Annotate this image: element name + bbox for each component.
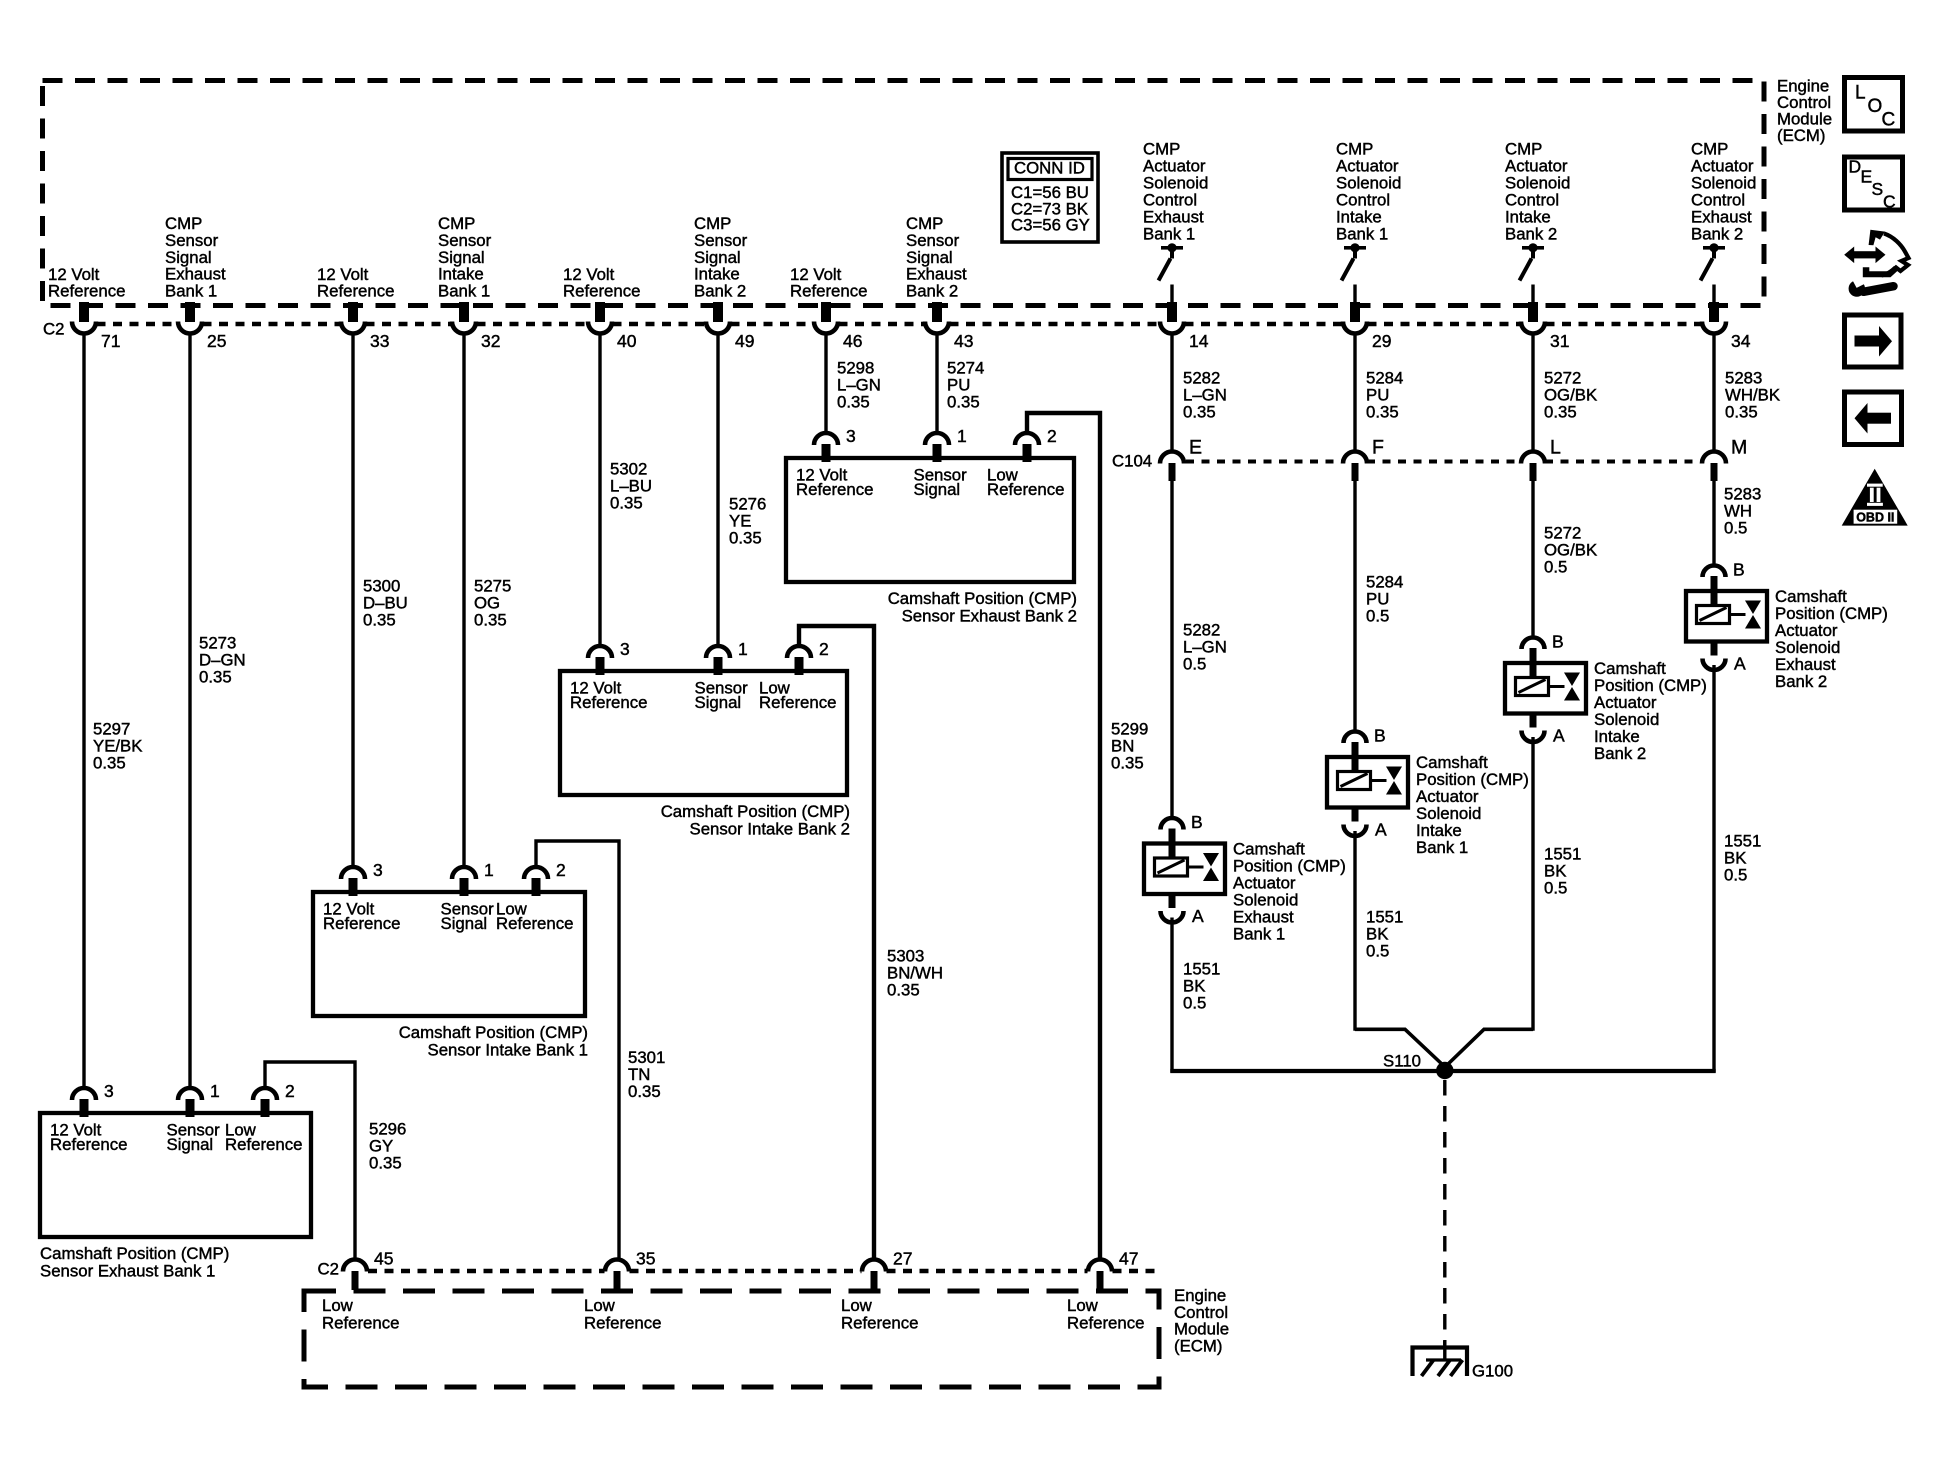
C104 pin F terminal [1343, 437, 1384, 482]
svg-text:Signal: Signal [441, 914, 488, 933]
sensor Exhaust Bank 1 pin 1 terminal [178, 1081, 220, 1117]
label: CMP Sensor Signal Exhaust Bank 1 (pin 25) [165, 214, 226, 300]
label: 12 Volt Reference (pin 46) [790, 265, 867, 301]
label: 12 Volt Reference (pin 71) [48, 265, 125, 301]
svg-text:1: 1 [484, 860, 494, 880]
wire label 1551 BK 0.5 (EB2) [1724, 832, 1761, 885]
svg-text:0.35: 0.35 [887, 981, 920, 1000]
svg-text:Camshaft Position (CMP): Camshaft Position (CMP) [661, 802, 850, 821]
connector C104 dashed line [1186, 460, 1702, 464]
svg-text:C: C [1883, 192, 1896, 212]
svg-text:0.5: 0.5 [1724, 519, 1747, 538]
svg-text:OBD II: OBD II [1856, 511, 1894, 525]
svg-text:3: 3 [104, 1081, 114, 1101]
sensor Exhaust Bank 1 internal labels [50, 1120, 302, 1154]
svg-text:43: 43 [954, 331, 973, 351]
wire 5282 L-GN ECM to C104 [1170, 332, 1173, 452]
svg-text:Low: Low [584, 1296, 616, 1315]
CMP actuator solenoid Exhaust Bank 1 pin B terminal [1161, 812, 1203, 845]
svg-text:Camshaft Position (CMP): Camshaft Position (CMP) [888, 589, 1077, 608]
svg-text:40: 40 [617, 331, 637, 351]
svg-text:E: E [1861, 167, 1873, 187]
CMP sensor Exhaust Bank 2 box [786, 458, 1074, 582]
svg-text:Bank 1: Bank 1 [438, 281, 490, 300]
sensor Intake Bank 1 pin 1 terminal [452, 860, 494, 896]
svg-text:Reference: Reference [584, 1314, 661, 1333]
wire 1551 BK solenoid A down [1712, 665, 1715, 1073]
ECM pin 45 terminal (low reference) [343, 1249, 393, 1291]
svg-text:2: 2 [285, 1081, 295, 1101]
wire label 5282 L-GN 0.35 [1183, 369, 1227, 422]
svg-text:M: M [1731, 437, 1747, 459]
wire 1551 BK solenoid A down [1531, 737, 1534, 1031]
svg-text:32: 32 [481, 331, 500, 351]
CMP actuator solenoid Intake Bank 2 pin B terminal [1522, 632, 1564, 665]
svg-text:Signal: Signal [914, 480, 961, 499]
wire 5297 wire YE/BK [82, 332, 85, 1089]
svg-text:S: S [1872, 179, 1884, 199]
sensor Intake Bank 2 pin 2 terminal [787, 639, 829, 675]
svg-text:Reference: Reference [225, 1135, 302, 1154]
svg-text:0.35: 0.35 [1725, 403, 1758, 422]
svg-text:Sensor Exhaust Bank 1: Sensor Exhaust Bank 1 [40, 1261, 215, 1280]
splice bus horizontal wire [1170, 1069, 1715, 1073]
svg-text:Reference: Reference [796, 480, 873, 499]
wire 1551 BK solenoid A down [1353, 831, 1356, 1031]
wire label 5298 L-GN 0.35 [837, 359, 881, 412]
wire 5274 wire PU [935, 332, 938, 434]
ECM internal driver switch for pin 29 [1342, 243, 1367, 308]
CMP actuator solenoid Exhaust Bank 1 body [1144, 844, 1225, 895]
label: CMP Actuator Solenoid Control Exhaust Bank 1 (pin 14) [1143, 140, 1208, 244]
svg-text:Bank 1: Bank 1 [1233, 925, 1285, 944]
CMP actuator solenoid Intake Bank 1 body [1327, 757, 1408, 808]
svg-text:0.5: 0.5 [1544, 879, 1567, 898]
svg-text:49: 49 [735, 331, 754, 351]
svg-text:3: 3 [846, 426, 856, 446]
svg-text:S110: S110 [1383, 1052, 1421, 1071]
svg-text:25: 25 [207, 331, 226, 351]
CMP actuator solenoid Intake Bank 1 caption [1416, 753, 1529, 857]
svg-text:A: A [1192, 906, 1204, 926]
CMP actuator solenoid Exhaust Bank 1 caption [1233, 840, 1346, 944]
svg-text:0.35: 0.35 [729, 529, 762, 548]
wire label 5301 TN 0.35 [628, 1048, 665, 1101]
Low Reference label pin 45 [322, 1296, 399, 1332]
svg-text:B: B [1552, 632, 1564, 652]
wire label 5296 GY 0.35 [369, 1119, 406, 1172]
S110 label [1383, 1052, 1421, 1071]
label: 12 Volt Reference (pin 40) [563, 265, 640, 301]
ECM pin 35 terminal (low reference) [605, 1249, 655, 1291]
svg-text:0.35: 0.35 [1544, 403, 1577, 422]
svg-text:Sensor Intake Bank 2: Sensor Intake Bank 2 [690, 819, 850, 838]
ECM pin 71 terminal [72, 302, 120, 351]
svg-text:Low: Low [322, 1296, 354, 1315]
diagnostic tool icon (arrows + wrench) [1844, 230, 1908, 297]
wire 5272 OG/BK C104 to solenoid B [1531, 481, 1534, 638]
svg-text:Camshaft Position (CMP): Camshaft Position (CMP) [399, 1023, 588, 1042]
Low Reference label pin 35 [584, 1296, 661, 1332]
svg-text:Bank 1: Bank 1 [1416, 838, 1468, 857]
svg-text:G100: G100 [1472, 1362, 1513, 1381]
ECM internal driver switch for pin 31 [1520, 243, 1545, 308]
svg-text:Reference: Reference [841, 1314, 918, 1333]
ECM pin 31 terminal [1521, 302, 1569, 351]
svg-text:3: 3 [373, 860, 383, 880]
splice S110 dot [1436, 1062, 1453, 1079]
svg-text:31: 31 [1550, 331, 1569, 351]
wire 5273 wire D-GN [188, 332, 191, 1089]
svg-text:2: 2 [819, 639, 829, 659]
G100 label [1472, 1362, 1513, 1381]
funnel from solenoid IB1 [1355, 1029, 1445, 1066]
ECM pin 14 terminal [1160, 302, 1209, 351]
ECM pin 33 terminal [341, 302, 389, 351]
svg-text:C104: C104 [1112, 452, 1152, 471]
svg-text:0.5: 0.5 [1544, 558, 1567, 577]
forward arrow icon box [1845, 315, 1902, 367]
svg-text:Bank 1: Bank 1 [1143, 225, 1195, 244]
CMP actuator solenoid Exhaust Bank 2 caption [1775, 587, 1888, 691]
label: CMP Sensor Signal Exhaust Bank 2 (pin 43) [906, 214, 967, 300]
ECM bottom name label [1174, 1286, 1229, 1356]
wire 5275 wire OG [462, 332, 465, 868]
svg-text:0.5: 0.5 [1366, 607, 1389, 626]
sensor Exhaust Bank 1 pin 3 terminal [72, 1081, 114, 1117]
ECM name label top right [1777, 77, 1832, 145]
svg-text:O: O [1868, 96, 1883, 117]
wire label 5299 BN 0.35 [1111, 719, 1148, 772]
svg-text:F: F [1372, 437, 1384, 459]
wire 5296 GY from sensor EB1 pin 2 to ECM pin 45 [265, 1062, 355, 1260]
wire 5272 OG/BK ECM to C104 [1531, 332, 1534, 452]
svg-text:33: 33 [370, 331, 389, 351]
ECM pin 43 terminal [925, 302, 973, 351]
svg-text:(ECM): (ECM) [1174, 1337, 1222, 1356]
svg-text:Reference: Reference [496, 914, 573, 933]
wire 5300 wire D-BU [351, 332, 354, 868]
CMP sensor Intake Bank 1 box [313, 892, 585, 1016]
sensor Intake Bank 1 caption [399, 1023, 588, 1059]
wire 5303 BN/WH from sensor IB2 pin 2 to ECM pin 27 [799, 626, 874, 1260]
sensor Exhaust Bank 2 pin 2 terminal [1015, 426, 1057, 462]
ground wire dashed to G100 [1443, 1080, 1446, 1360]
wire 5282 L-GN C104 to solenoid B [1170, 481, 1173, 819]
wire label 5275 OG 0.35 [474, 577, 511, 630]
svg-text:Reference: Reference [50, 1135, 127, 1154]
svg-text:46: 46 [843, 331, 862, 351]
svg-text:Reference: Reference [790, 282, 867, 301]
wire label 5283 WH 0.5 [1724, 485, 1761, 538]
wire 1551 BK solenoid A down [1170, 918, 1173, 1073]
svg-text:Reference: Reference [759, 693, 836, 712]
svg-text:Bank 2: Bank 2 [1594, 744, 1646, 763]
funnel from solenoid IB2 [1446, 1029, 1534, 1066]
CMP actuator solenoid Intake Bank 2 body [1505, 663, 1586, 714]
wire label 1551 BK 0.5 (IB1) [1366, 908, 1403, 961]
svg-text:0.35: 0.35 [369, 1153, 402, 1172]
svg-text:Bank 2: Bank 2 [1775, 672, 1827, 691]
svg-text:Reference: Reference [570, 693, 647, 712]
svg-text:0.5: 0.5 [1183, 655, 1206, 674]
CMP sensor Intake Bank 2 box [560, 671, 847, 795]
wire label 5282 L-GN 0.5 [1183, 621, 1227, 674]
ECM pin 47 terminal (low reference) [1088, 1249, 1138, 1291]
svg-text:0.5: 0.5 [1366, 942, 1389, 961]
C104 label [1112, 452, 1152, 471]
svg-text:27: 27 [893, 1249, 912, 1269]
svg-text:2: 2 [1047, 426, 1057, 446]
wire label 5273 D-GN 0.35 [199, 634, 246, 687]
svg-text:(ECM): (ECM) [1777, 126, 1825, 145]
wire 5302 wire L-BU [598, 332, 601, 647]
svg-text:Reference: Reference [563, 282, 640, 301]
CMP actuator solenoid Intake Bank 1 pin A terminal [1344, 807, 1388, 840]
svg-text:0.35: 0.35 [1183, 403, 1216, 422]
wire label 5300 D-BU 0.35 [363, 577, 408, 630]
svg-text:47: 47 [1119, 1249, 1138, 1269]
svg-text:0.35: 0.35 [93, 754, 126, 773]
Low Reference label pin 27 [841, 1296, 918, 1332]
svg-text:0.35: 0.35 [363, 611, 396, 630]
svg-text:L: L [1855, 83, 1866, 104]
wire label 5272 OG/BK 0.5 [1544, 524, 1597, 577]
sensor Intake Bank 1 pin 2 terminal [524, 860, 566, 896]
svg-text:E: E [1189, 437, 1202, 459]
CMP sensor Exhaust Bank 1 box [40, 1113, 311, 1237]
wire 5284 PU ECM to C104 [1353, 332, 1356, 452]
CMP actuator solenoid Exhaust Bank 2 body [1686, 591, 1767, 642]
svg-text:1: 1 [957, 426, 967, 446]
svg-text:Bank 1: Bank 1 [1336, 225, 1388, 244]
svg-text:Bank 2: Bank 2 [1691, 225, 1743, 244]
sensor Exhaust Bank 2 pin 3 terminal [814, 426, 856, 462]
C104 pin M terminal [1702, 437, 1747, 482]
svg-text:34: 34 [1731, 331, 1751, 351]
wire 5284 PU C104 to solenoid B [1353, 481, 1356, 732]
svg-text:A: A [1553, 726, 1565, 746]
svg-text:Reference: Reference [1067, 1314, 1144, 1333]
wire label 1551 BK 0.5 (IB2) [1544, 845, 1581, 898]
label: CMP Actuator Solenoid Control Intake Bank 1 (pin 29) [1336, 140, 1401, 244]
sensor Exhaust Bank 1 pin 2 terminal [253, 1081, 295, 1117]
svg-text:Reference: Reference [317, 282, 394, 301]
Engine Control Module (ECM) bottom dashed box [304, 1291, 1159, 1387]
backward arrow icon box [1845, 392, 1902, 445]
svg-text:71: 71 [101, 331, 120, 351]
sensor Exhaust Bank 2 caption [888, 589, 1077, 625]
sensor Intake Bank 1 internal labels [323, 899, 573, 933]
sensor Exhaust Bank 2 internal labels [796, 465, 1064, 499]
ECM pin 27 terminal (low reference) [862, 1249, 912, 1291]
svg-text:A: A [1375, 820, 1387, 840]
sensor Intake Bank 2 internal labels [570, 678, 836, 712]
svg-text:0.35: 0.35 [628, 1082, 661, 1101]
svg-text:0.35: 0.35 [199, 668, 232, 687]
svg-text:Signal: Signal [167, 1135, 214, 1154]
svg-text:Bank 2: Bank 2 [1505, 225, 1557, 244]
svg-text:B: B [1733, 560, 1745, 580]
wire label 1551 BK 0.5 (EB1) [1183, 960, 1220, 1013]
svg-text:2: 2 [556, 860, 566, 880]
svg-text:45: 45 [374, 1249, 393, 1269]
svg-text:35: 35 [636, 1249, 655, 1269]
svg-text:B: B [1191, 812, 1203, 832]
label: 12 Volt Reference (pin 33) [317, 265, 394, 301]
wire label 5284 PU 0.35 [1366, 369, 1403, 422]
label: CMP Actuator Solenoid Control Exhaust Bank 2 (pin 34) [1691, 140, 1756, 244]
svg-text:0.35: 0.35 [947, 393, 980, 412]
svg-text:Reference: Reference [48, 282, 125, 301]
ECM pin 32 terminal [452, 302, 500, 351]
svg-text:Camshaft Position (CMP): Camshaft Position (CMP) [40, 1244, 229, 1263]
ECM pin 34 terminal [1702, 302, 1751, 351]
svg-text:Reference: Reference [322, 1314, 399, 1333]
svg-text:CONN ID: CONN ID [1014, 159, 1085, 178]
svg-text:Bank 1: Bank 1 [165, 281, 217, 300]
LOC icon box [1845, 78, 1903, 132]
svg-text:A: A [1734, 654, 1746, 674]
svg-text:14: 14 [1189, 331, 1209, 351]
CMP actuator solenoid Exhaust Bank 2 pin A terminal [1703, 641, 1747, 674]
ECM pin 29 terminal [1343, 302, 1391, 351]
svg-text:Reference: Reference [323, 914, 400, 933]
OBD II triangle icon [1842, 469, 1908, 526]
svg-text:Bank 2: Bank 2 [906, 281, 958, 300]
label: CMP Sensor Signal Intake Bank 2 (pin 49) [694, 214, 748, 300]
svg-text:Sensor Exhaust Bank 2: Sensor Exhaust Bank 2 [902, 606, 1077, 625]
ECM pin 40 terminal [588, 302, 637, 351]
wire 5298 wire L-GN [824, 332, 827, 434]
Engine Control Module (ECM) top dashed box [43, 81, 1765, 306]
C104 pin L terminal [1521, 437, 1561, 482]
svg-text:C: C [1882, 110, 1896, 131]
wire label 5283 WH/BK 0.35 [1725, 369, 1780, 422]
svg-text:1: 1 [210, 1081, 220, 1101]
C104 pin E terminal [1160, 437, 1202, 482]
svg-text:L: L [1550, 437, 1561, 459]
CMP actuator solenoid Exhaust Bank 2 pin B terminal [1703, 560, 1745, 593]
bottom connector C2 dotted line [368, 1269, 1160, 1273]
wire label 5297 YE/BK 0.35 [93, 720, 142, 773]
ECM internal driver switch for pin 34 [1701, 243, 1726, 308]
wire label 5272 OG/BK 0.35 [1544, 369, 1597, 422]
DESC icon box [1845, 157, 1903, 212]
sensor Intake Bank 1 pin 3 terminal [341, 860, 383, 896]
svg-text:0.5: 0.5 [1724, 866, 1747, 885]
wire label 5284 PU 0.5 [1366, 573, 1403, 626]
wire 5283 WH/BK C104 to solenoid B [1712, 481, 1715, 566]
svg-text:C3=56 GY: C3=56 GY [1011, 216, 1090, 235]
svg-text:Low: Low [841, 1296, 873, 1315]
sensor Intake Bank 2 pin 3 terminal [588, 639, 630, 675]
svg-text:0.35: 0.35 [837, 393, 870, 412]
CMP actuator solenoid Intake Bank 2 pin A terminal [1522, 713, 1566, 746]
wire label 5274 PU 0.35 [947, 359, 984, 412]
svg-text:Low: Low [1067, 1296, 1099, 1315]
wire 5276 wire YE [716, 332, 719, 647]
label: CMP Sensor Signal Intake Bank 1 (pin 32) [438, 214, 492, 300]
wire label 5303 BN/WH 0.35 [887, 947, 943, 1000]
CMP actuator solenoid Intake Bank 2 caption [1594, 659, 1707, 763]
svg-text:0.35: 0.35 [1111, 753, 1144, 772]
ground symbol G100 [1413, 1348, 1468, 1377]
wire 5283 WH/BK ECM to C104 [1712, 332, 1715, 452]
connector row C2/C1 dotted line [97, 322, 1702, 327]
svg-text:C2: C2 [318, 1260, 339, 1279]
CMP actuator solenoid Exhaust Bank 1 pin A terminal [1161, 893, 1205, 926]
ECM pin 25 terminal [178, 302, 226, 351]
svg-text:3: 3 [620, 639, 630, 659]
svg-text:0.35: 0.35 [474, 611, 507, 630]
ECM pin 49 terminal [706, 302, 754, 351]
wire 5299 BN from sensor EB2 pin 2 to ECM pin 47 [1027, 413, 1100, 1260]
wire label 5302 L-BU 0.35 [610, 460, 652, 513]
wire 5301 TN from sensor IB1 pin 2 to ECM pin 35 [536, 841, 619, 1260]
svg-text:Sensor Intake Bank 1: Sensor Intake Bank 1 [428, 1040, 588, 1059]
connector C2 label [43, 320, 64, 339]
sensor Intake Bank 2 caption [661, 802, 850, 838]
CMP actuator solenoid Intake Bank 1 pin B terminal [1344, 726, 1386, 759]
sensor Exhaust Bank 2 pin 1 terminal [925, 426, 967, 462]
wire label 5276 YE 0.35 [729, 495, 766, 548]
svg-text:Bank 2: Bank 2 [694, 281, 746, 300]
svg-text:Reference: Reference [987, 480, 1064, 499]
ECM pin 46 terminal [814, 302, 862, 351]
svg-text:C2: C2 [43, 320, 64, 339]
label: CMP Actuator Solenoid Control Intake Bank 2 (pin 31) [1505, 140, 1570, 244]
svg-text:B: B [1374, 726, 1386, 746]
ECM internal driver switch for pin 14 [1159, 243, 1184, 308]
sensor Exhaust Bank 1 caption [40, 1244, 229, 1280]
sensor Intake Bank 2 pin 1 terminal [706, 639, 748, 675]
Low Reference label pin 47 [1067, 1296, 1144, 1332]
svg-text:29: 29 [1372, 331, 1391, 351]
bottom connector C2 label [318, 1260, 339, 1279]
svg-text:0.35: 0.35 [610, 494, 643, 513]
svg-text:0.5: 0.5 [1183, 994, 1206, 1013]
svg-text:1: 1 [738, 639, 748, 659]
svg-text:0.35: 0.35 [1366, 403, 1399, 422]
CONN ID table [1002, 153, 1098, 242]
svg-text:D: D [1849, 157, 1862, 177]
svg-text:Signal: Signal [695, 693, 742, 712]
